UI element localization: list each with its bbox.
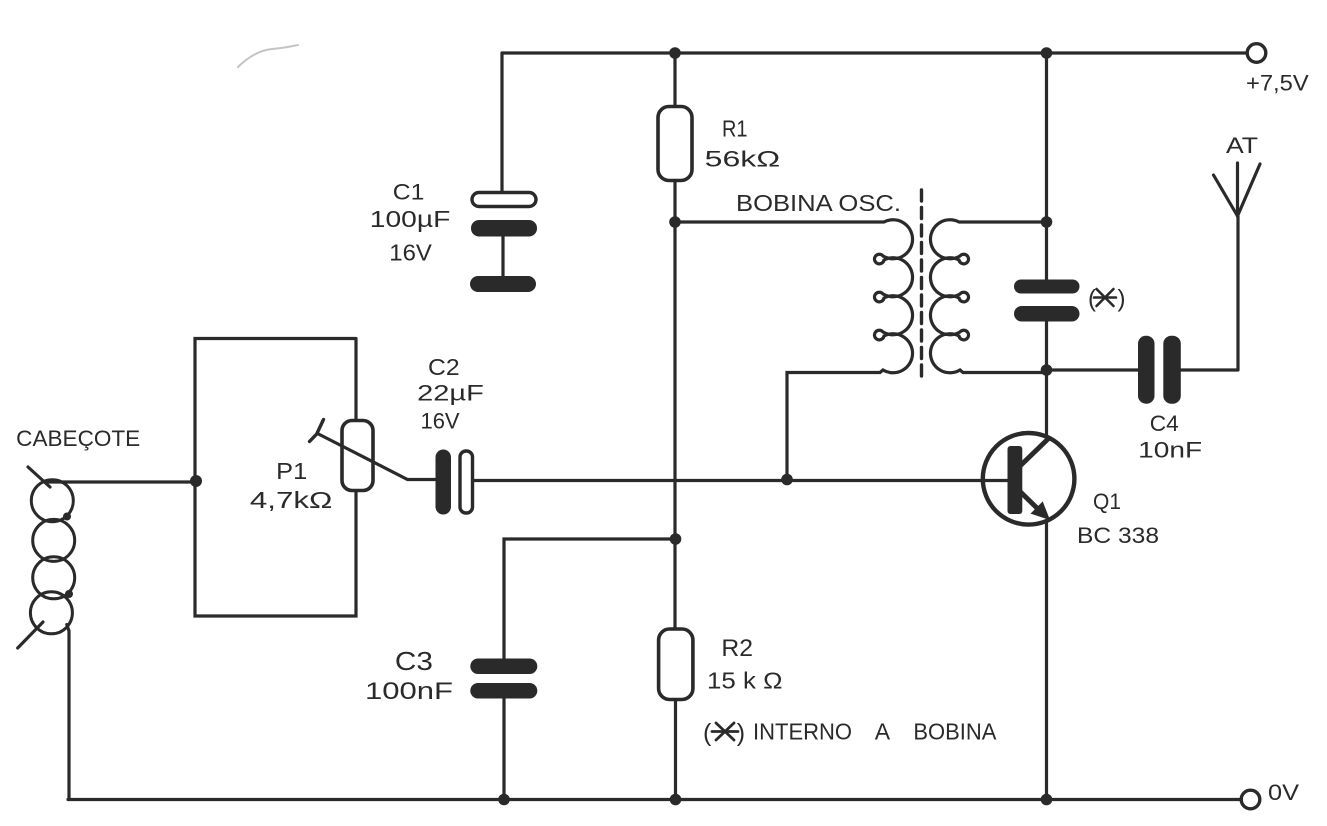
capacitor C2 — [436, 450, 473, 515]
wire C4 branch — [1047, 216, 1239, 370]
svg-text:CABEÇOTE: CABEÇOTE — [16, 426, 140, 451]
capacitor C1 — [470, 193, 537, 293]
svg-text:16V: 16V — [421, 409, 460, 434]
svg-text:100µF: 100µF — [370, 206, 451, 232]
capacitor C3 — [470, 659, 537, 699]
svg-text:15 k Ω: 15 k Ω — [707, 668, 782, 694]
svg-text:INTERNO: INTERNO — [753, 719, 852, 745]
junction primary winding / base wire — [781, 474, 793, 486]
label note (*) INTERNO A BOBINA — [703, 719, 997, 747]
svg-text:22µF: 22µF — [417, 381, 484, 406]
terminal 0V — [1241, 780, 1299, 809]
wire internal cap to collector junction — [1045, 322, 1048, 438]
svg-text:BOBINA: BOBINA — [913, 719, 997, 745]
wire base (C2 to Q1 base) — [473, 479, 1008, 482]
label Q1 type — [1077, 489, 1159, 548]
terminal +7,5V — [1246, 44, 1309, 96]
wire +7.5V top rail — [502, 51, 1248, 54]
svg-text:C3: C3 — [395, 646, 433, 676]
transformer BOBINA OSC. primary winding — [675, 220, 913, 480]
svg-text:100nF: 100nF — [365, 678, 453, 705]
svg-text:0V: 0V — [1268, 780, 1299, 805]
svg-text:(: ( — [703, 719, 712, 747]
svg-text:16V: 16V — [389, 240, 432, 266]
transformer BOBINA OSC. secondary winding — [930, 220, 1046, 373]
svg-text:R2: R2 — [721, 635, 753, 662]
wire R1 top lead — [673, 53, 676, 107]
label P1 value — [250, 458, 333, 513]
antenna AT — [1214, 133, 1261, 216]
svg-text:BOBINA OSC.: BOBINA OSC. — [736, 190, 901, 216]
svg-text:Q1: Q1 — [1093, 489, 1121, 514]
wire head to P1 box — [48, 480, 195, 483]
junction 0V / emitter — [1041, 794, 1053, 806]
label R1 value — [705, 115, 781, 171]
label R2 value — [707, 635, 782, 694]
label C3 value — [365, 646, 453, 705]
label C2 value — [417, 354, 484, 434]
resistor R2 — [659, 629, 693, 700]
transformer core (dashed) — [920, 190, 923, 383]
junction 0V / R2 — [670, 794, 682, 806]
inductor CABECOTE (tape head) — [18, 467, 75, 800]
wire R1 bottom to base-line vertical — [673, 181, 676, 630]
wire R2 bottom lead — [674, 700, 677, 800]
junction 0V / C3 — [498, 794, 510, 806]
junction top rail / collector branch — [1041, 47, 1053, 59]
svg-text:AT: AT — [1226, 133, 1258, 158]
label C1 value — [370, 180, 451, 266]
resistor R1 — [658, 107, 692, 181]
label C4 value — [1138, 411, 1202, 463]
wire collector branch vertical (top rail to internal cap) — [1045, 53, 1048, 280]
wire emitter vertical to 0V — [1045, 521, 1048, 800]
svg-text:+7,5V: +7,5V — [1246, 70, 1309, 95]
transistor Q1 — [983, 433, 1075, 525]
faint pencil mark (scan artifact) — [238, 45, 298, 67]
svg-text:10nF: 10nF — [1138, 438, 1202, 463]
junction base-line / C3 branch — [670, 533, 682, 545]
svg-text:R1: R1 — [722, 115, 748, 141]
P1 feedback box wires — [195, 339, 356, 617]
svg-text:P1: P1 — [276, 458, 307, 484]
svg-text:): ) — [737, 719, 745, 747]
junction top rail / R1 — [669, 47, 681, 59]
svg-text:BC 338: BC 338 — [1077, 523, 1159, 548]
potentiometer P1 — [310, 420, 436, 491]
junction collector branch / C4 — [1041, 364, 1053, 376]
wire C1 top lead — [500, 53, 503, 193]
wire C3 branch from base-line — [504, 539, 676, 800]
svg-text:): ) — [1118, 286, 1126, 313]
wire 0V bottom rail — [68, 798, 1242, 801]
svg-text:C2: C2 — [428, 354, 460, 380]
svg-text:A: A — [875, 719, 891, 745]
svg-text:56kΩ: 56kΩ — [705, 146, 781, 171]
capacitor C4 — [1138, 336, 1181, 404]
label (*) internal cap — [1088, 286, 1126, 313]
junction head / P1 box — [190, 475, 202, 487]
svg-text:C4: C4 — [1150, 411, 1179, 436]
junction secondary winding / collector branch — [1041, 216, 1053, 228]
svg-text:4,7kΩ: 4,7kΩ — [250, 487, 333, 513]
svg-text:C1: C1 — [393, 180, 425, 205]
svg-text:(: ( — [1088, 286, 1096, 313]
capacitor internal (*) to coil — [1014, 280, 1080, 322]
junction R1 / primary winding — [669, 216, 681, 228]
